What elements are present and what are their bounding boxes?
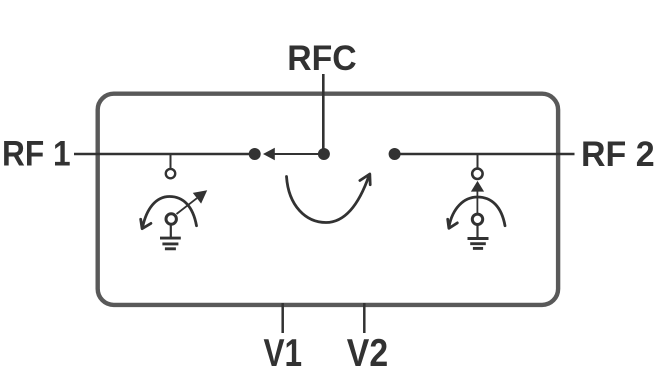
svg-text:V1: V1: [264, 332, 303, 373]
svg-text:RF 2: RF 2: [581, 134, 655, 174]
svg-text:V2: V2: [347, 332, 388, 373]
svg-text:RFC: RFC: [287, 38, 356, 78]
svg-text:RF 1: RF 1: [2, 134, 71, 174]
